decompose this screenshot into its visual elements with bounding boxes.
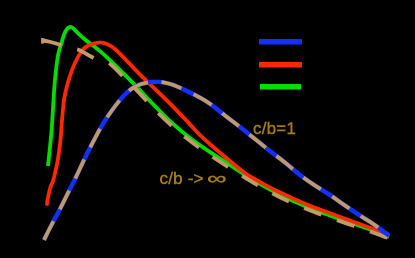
legend green swatch: [260, 84, 301, 90]
legend red swatch: [259, 62, 302, 68]
label c/b -> inf: [160, 169, 219, 189]
curve blue solid: [44, 82, 389, 240]
label c/b=1: [253, 119, 296, 139]
curve tan dashed (c/b -> inf): [43, 40, 390, 239]
curve tan dashed over blue (c/b=1): [44, 82, 389, 240]
blue tip segment at convergence: [382, 231, 389, 236]
curve red: [47, 42, 388, 234]
legend blue swatch: [259, 39, 302, 45]
curve green: [48, 27, 389, 237]
tan tick at start of c/b->inf curve: [42, 38, 46, 44]
